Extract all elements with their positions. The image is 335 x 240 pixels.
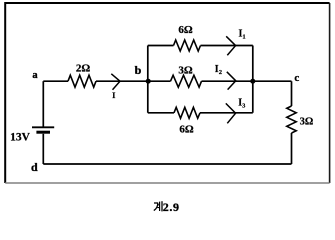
resistor 3ohm middle	[171, 75, 202, 87]
wire 3ohm to bottom	[291, 133, 293, 164]
right junction dot	[250, 79, 255, 84]
resistor 2ohm	[68, 75, 96, 87]
svg-text:6Ω: 6Ω	[179, 124, 194, 136]
svg-text:I3: I3	[238, 98, 246, 110]
svg-text:3Ω: 3Ω	[178, 65, 193, 77]
wire battery to d	[42, 134, 44, 164]
svg-text:I1: I1	[239, 28, 246, 40]
svg-text:3Ω: 3Ω	[300, 116, 314, 127]
node b junction dot	[146, 79, 151, 84]
svg-text:I: I	[112, 90, 116, 100]
current arrow I1	[226, 36, 235, 55]
top branch wire	[148, 45, 253, 47]
current arrow I3	[226, 103, 236, 123]
svg-text:2Ω: 2Ω	[76, 63, 91, 75]
caption hangul glyph	[154, 201, 162, 211]
svg-text:6Ω: 6Ω	[178, 24, 193, 36]
current arrow I2	[227, 72, 236, 90]
frame border of figure	[5, 3, 329, 183]
svg-text:2.9: 2.9	[163, 200, 180, 214]
bottom wire d-right	[43, 163, 291, 165]
svg-text:b: b	[135, 63, 142, 77]
wire a-b (main top wire)	[43, 80, 148, 82]
svg-text:I2: I2	[215, 64, 222, 76]
middle branch wire	[148, 80, 253, 82]
wire junction to c	[253, 81, 292, 106]
right branch bus	[252, 46, 254, 113]
svg-text:a: a	[32, 70, 38, 81]
resistor 3ohm right (vertical)	[287, 106, 296, 133]
resistor 6ohm bottom	[174, 107, 200, 118]
svg-text:d: d	[31, 160, 38, 174]
resistor 6ohm top	[174, 40, 201, 51]
left branch bus at b	[147, 46, 149, 113]
battery 13V	[32, 126, 54, 128]
left bus wire (a down to battery)	[42, 81, 44, 126]
bottom branch wire	[148, 112, 253, 114]
svg-text:13V: 13V	[10, 132, 31, 144]
svg-text:c: c	[294, 72, 299, 84]
current arrow I on wire a-b	[111, 74, 120, 90]
